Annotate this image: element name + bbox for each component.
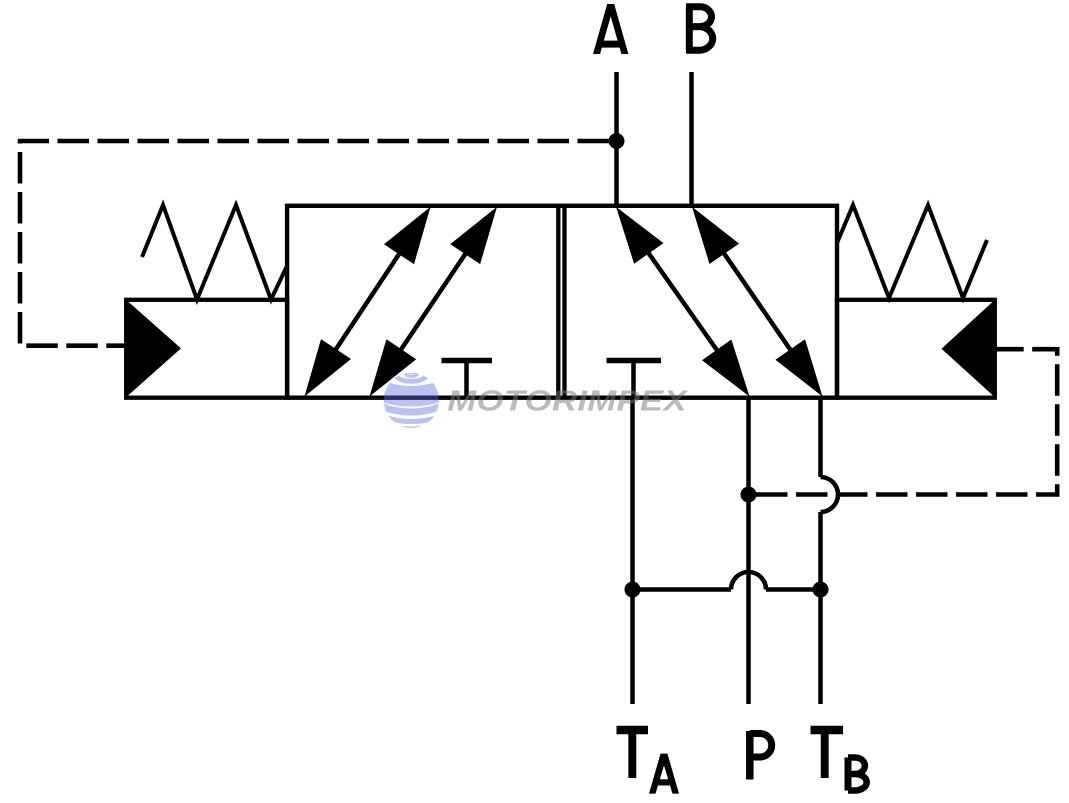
wire: dashed pilot line from P to right solenoid: [756, 349, 1057, 494]
node: junction dot on A line: [609, 133, 625, 149]
node: junction dot TB: [813, 582, 829, 598]
wire: port B line: [689, 72, 694, 207]
wire: port TA line: [630, 398, 635, 704]
flow arrow R1 (right position, A to P): [616, 207, 750, 397]
wire: port A line: [614, 72, 619, 207]
port label B: [686, 7, 713, 51]
flow arrow R2 (right position, B to T): [692, 207, 823, 397]
spring (right): [837, 205, 987, 298]
node: junction dot on P line (pilot tap): [741, 487, 757, 503]
wire: port TB line with crossover hop: [818, 398, 823, 477]
flow arrow L2 (left position): [370, 207, 498, 397]
valve center divider: [556, 206, 560, 398]
wire: dashed pilot line from A to left solenoid: [20, 141, 609, 346]
watermark globe logo: [339, 321, 483, 428]
spring (left): [142, 205, 287, 300]
solenoid Y1 box (left): [126, 300, 287, 398]
node: junction dot TA: [625, 582, 641, 598]
svg-text:MOTORIMPEX: MOTORIMPEX: [447, 384, 688, 417]
port label P: [750, 731, 772, 780]
blocked port symbol (right position): [607, 358, 662, 364]
blocked port symbol (left position): [442, 358, 493, 364]
wire: port P line: [746, 398, 751, 704]
valve envelope (two positions): [287, 206, 837, 398]
wire: TA-TB connector with hop over P: [633, 587, 732, 592]
solenoid Y1 triangle: [128, 302, 181, 396]
solenoid Y2 box (right): [837, 300, 995, 398]
port label TB: [811, 730, 867, 791]
flow arrow L1 (left position): [305, 207, 431, 397]
solenoid Y2 triangle: [942, 302, 994, 396]
port label A: [593, 4, 628, 54]
port label TA: [617, 730, 649, 778]
